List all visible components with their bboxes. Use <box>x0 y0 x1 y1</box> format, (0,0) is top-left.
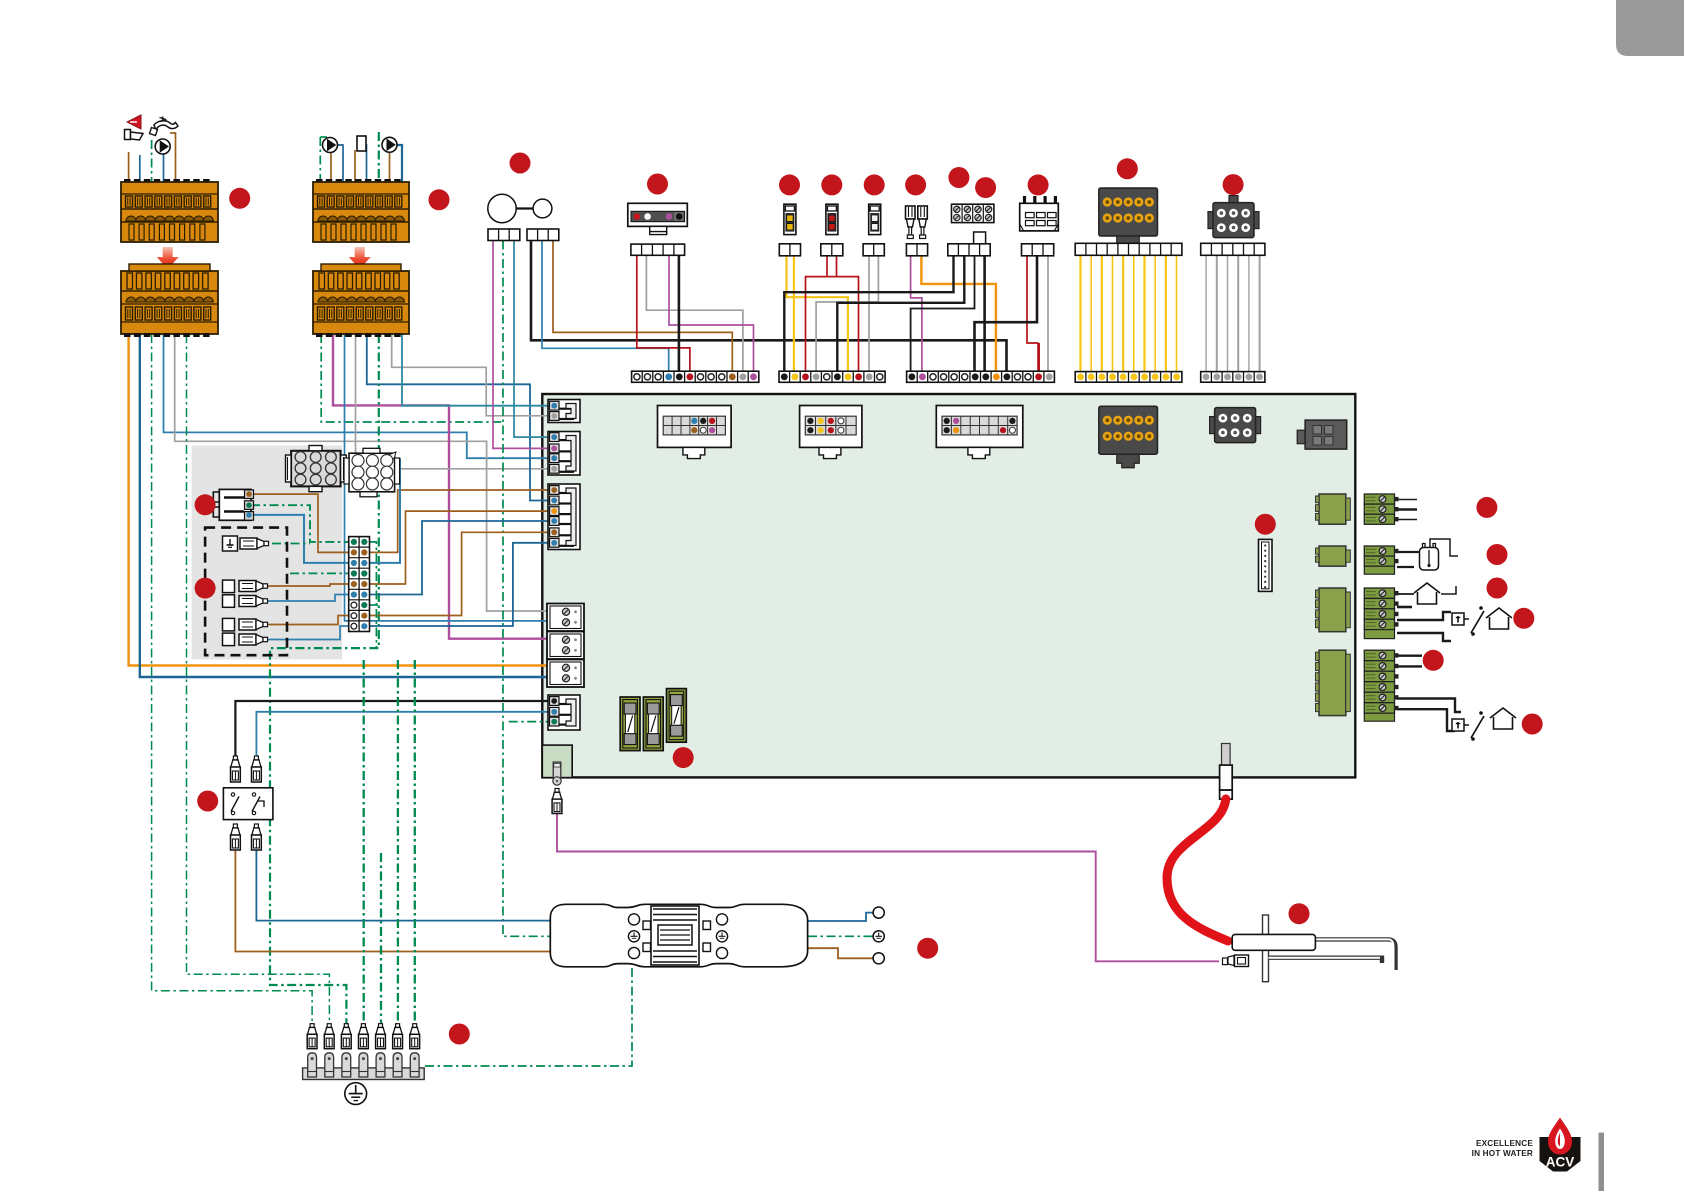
wire fuse3 gray b <box>816 256 878 372</box>
fuse holder F1 (yellow) <box>784 204 796 234</box>
9-pin connector CN9a <box>286 446 347 492</box>
ground rail <box>303 1024 425 1080</box>
wire G2 earth 2 <box>378 132 380 182</box>
wire P1 stub 3 <box>1397 519 1417 521</box>
wire yellow harness 5 <box>1122 255 1124 371</box>
wire P2 wire 2 <box>1397 566 1414 568</box>
wire house1 tail <box>1441 586 1456 594</box>
wire row1 earth stub <box>370 542 377 648</box>
wire yellow harness 3 <box>1101 255 1103 371</box>
wire row3 blue up <box>370 458 401 563</box>
wire fuse2 red bus <box>806 277 859 372</box>
wire black glasses bus <box>531 241 1007 372</box>
callout 13 <box>1223 174 1244 195</box>
wire P3 row3 switch <box>1397 612 1451 620</box>
wire display red <box>637 255 690 371</box>
wire row7 earth stub <box>370 604 379 606</box>
orange connector X1 upper <box>121 179 218 242</box>
relay module connector strip <box>1022 244 1054 256</box>
wire P1 stub 2 <box>1397 508 1417 511</box>
wire G1 blue pump <box>163 154 165 182</box>
DHW sensor icon <box>1420 544 1439 571</box>
wire relay black up <box>235 701 549 758</box>
panel inlet connector <box>213 489 253 520</box>
wire gray harness 6 <box>1259 255 1261 371</box>
screw module connector strip <box>948 244 990 256</box>
wire gray harness 5 <box>1248 255 1250 371</box>
wire relay blue up <box>256 712 549 758</box>
electrode sense terminal <box>1223 955 1249 967</box>
PCB main board <box>542 394 1355 777</box>
earth terminal icon <box>223 536 238 551</box>
warning red arrow icon <box>127 115 141 129</box>
fuse connector strip F2 <box>821 244 843 256</box>
wire plug orange <box>921 256 996 372</box>
callout 15 <box>195 578 216 599</box>
wire G2 earth to pump1 <box>319 137 321 182</box>
wire screws black 2 <box>837 256 964 372</box>
callout 9 <box>948 167 969 188</box>
wire P3 row2 stub <box>1397 606 1412 609</box>
wire yellow harness 4 <box>1112 255 1114 371</box>
terminal strip E <box>1201 372 1265 383</box>
wire relay brown down <box>235 849 552 952</box>
screw terminal module <box>952 204 994 222</box>
glasses connector strip right <box>527 229 559 241</box>
connector J10 external <box>1099 188 1158 250</box>
terminal strip B <box>779 371 885 382</box>
PCB green headers <box>1316 494 1351 716</box>
wire row4 earth stub <box>290 572 349 574</box>
callout 25 <box>449 1024 470 1045</box>
callout 24 <box>197 791 218 812</box>
PCB earth tab area <box>542 745 572 778</box>
wire teal glasses to conn B blue1 <box>514 241 549 438</box>
PCB vertical pin header <box>1259 539 1273 591</box>
sensor squares <box>223 580 235 593</box>
mains lead ends <box>873 907 884 964</box>
wire box brown spade1 <box>268 584 349 586</box>
wire box brown spade2 <box>268 616 349 625</box>
plug P2 (sensor) <box>1364 546 1398 566</box>
page tab top right <box>1616 0 1684 56</box>
wire row2 brown to conn C <box>370 490 550 552</box>
fuse holder F3 (spare) <box>869 204 881 234</box>
wire row5 brown to conn C <box>370 511 550 584</box>
wire earth gnd 4 <box>363 660 365 1024</box>
ignition coil tab <box>1220 744 1233 800</box>
wire G2 earth pump1 top <box>320 136 327 138</box>
wire row6 blue to conn C <box>370 521 550 595</box>
wire gray harness 2 <box>1216 255 1218 371</box>
callout 27 <box>1289 903 1310 924</box>
callout 16 <box>1255 514 1276 535</box>
relay K2 body <box>223 788 273 820</box>
wire display gray <box>646 255 743 371</box>
manual control icon <box>125 130 131 140</box>
wire yellow harness 9 <box>1165 255 1167 371</box>
wire connD earth stub <box>509 721 549 723</box>
wire relaymod red <box>1027 256 1039 343</box>
wire earth glasses to mains <box>503 241 552 937</box>
wire P2 wire 1 <box>1397 551 1420 553</box>
wire P4 row5 switch <box>1397 699 1461 713</box>
page bar bottom right <box>1599 1133 1605 1191</box>
wire fuse2 red tap a <box>826 256 828 277</box>
wire earth g2 b <box>270 334 379 1024</box>
wire G2 brown valve <box>354 150 356 182</box>
gray accessory panel <box>192 445 343 659</box>
wire earth g2 a <box>321 334 503 422</box>
svg-text:ACV: ACV <box>1546 1155 1575 1170</box>
PCB connector CN-B <box>548 432 580 476</box>
callout 1 <box>229 188 250 209</box>
wire earth long left 1 <box>152 334 313 1024</box>
wire fuse2 red tap b <box>836 256 838 277</box>
electrode rod lower <box>1269 958 1383 963</box>
callout 21 <box>1513 608 1534 629</box>
glasses connector strip left <box>488 229 520 241</box>
wire box earth spade <box>272 543 310 545</box>
red arrow 1 <box>157 247 179 269</box>
PCB footprint FP1 <box>658 406 732 459</box>
pump P2 icon <box>323 138 338 153</box>
fuse connector strip F3 <box>863 244 884 256</box>
sensor dashed box <box>205 528 287 656</box>
wire magenta glasses to conn B <box>493 241 549 449</box>
ignition caps icon B <box>918 206 928 239</box>
ACV logo shield <box>1540 1137 1581 1172</box>
PCB fuse FU3 <box>667 689 687 743</box>
pump P1 icon <box>155 139 170 154</box>
wire gray to conn A gray <box>392 334 549 416</box>
callout 7 <box>864 174 885 195</box>
sensor spade 1 <box>239 581 256 592</box>
sensor spade 2 <box>239 596 256 607</box>
plug P1 (0-10V) <box>1364 494 1398 524</box>
wire mains right earth <box>808 935 873 937</box>
wire relaymod black <box>975 256 1038 372</box>
PCB footprint FP3 <box>936 406 1023 459</box>
valve icon <box>357 136 366 151</box>
wire mains right brown <box>808 948 873 958</box>
wire display black <box>678 255 681 371</box>
screw module raised cell <box>974 232 986 244</box>
wire blue glasses to strip A <box>542 241 669 372</box>
callout 4 <box>647 174 668 195</box>
ignition caps icon A <box>906 206 916 239</box>
plug P4 (room stat) <box>1364 650 1398 713</box>
wire yellow harness 10 <box>1176 255 1178 371</box>
connector J6 external <box>1208 196 1259 238</box>
relay K2 top spade 1 <box>231 756 241 782</box>
wire mains blue to screw block <box>140 334 549 677</box>
wire row9 blue to conn C <box>370 543 550 626</box>
wire relayconn earth <box>251 505 349 542</box>
J6 connector strip <box>1201 243 1265 255</box>
wire fuse1 yellow b <box>793 256 795 372</box>
PCB connector CN-D <box>548 695 580 730</box>
PCB earth faston <box>553 762 561 785</box>
callout 8 <box>905 174 926 195</box>
wire relayconn brown <box>251 494 349 552</box>
PCB connector CN-A <box>548 400 580 423</box>
wire G2 blue pump1 <box>337 145 343 182</box>
J10 connector strip <box>1075 243 1182 255</box>
wire P4 row6 switch <box>1397 709 1455 731</box>
callout 10 <box>975 177 996 198</box>
thermostat switch 1 <box>1452 613 1464 625</box>
earth spade in box <box>240 538 257 549</box>
electrode mounting plate <box>1263 915 1269 982</box>
wire P1 stub 1 <box>1397 499 1417 501</box>
electrode rod upper <box>1315 939 1395 970</box>
faucet DHW icon <box>154 121 178 130</box>
PCB fuse FU2 <box>643 697 663 751</box>
wire G2 blue valve <box>361 145 367 182</box>
wire plug magenta <box>911 256 922 372</box>
wire screws black 3 <box>911 256 975 372</box>
callout 22 <box>1423 650 1444 671</box>
terminal strip C <box>907 371 1055 382</box>
wire yellow harness 1 <box>1079 255 1081 371</box>
wire relaymod red thick <box>1037 343 1040 372</box>
fuse holder F2 (red) <box>826 204 838 234</box>
PCB connector J10 board <box>1099 406 1158 468</box>
callout 17 <box>673 747 694 768</box>
wire teal to conn A blue <box>402 334 549 406</box>
mains connector body <box>550 904 807 967</box>
wire yellow harness 8 <box>1154 255 1156 371</box>
wire fuse1 yellow a <box>787 256 848 372</box>
PCB connector J6 board <box>1210 408 1261 443</box>
wire yellow harness 7 <box>1143 255 1145 371</box>
wire relayconn blue <box>251 515 349 563</box>
9-pin connector CN9b <box>344 448 400 497</box>
ignition cable <box>1167 799 1228 941</box>
relay module K1 <box>1020 196 1059 231</box>
outdoor house icon <box>1414 583 1440 593</box>
terminal strip A <box>632 371 759 382</box>
wire blue to screw blue <box>345 334 550 621</box>
wire earth long left 2 <box>187 334 330 1024</box>
wire fuse3 gray a <box>868 256 870 372</box>
2-column terminal strip <box>349 537 370 632</box>
electrode rod upper fill <box>1315 939 1393 970</box>
display connector strip <box>631 244 685 255</box>
orange connector X1 lower <box>121 264 218 337</box>
sensor spade 3 <box>239 619 256 630</box>
callout 19 <box>1487 544 1508 565</box>
pump P3 icon <box>382 137 397 152</box>
wire P3 row1 to house <box>1397 593 1414 595</box>
wire brown glasses to strip A <box>553 241 732 372</box>
callout 2 <box>429 189 450 210</box>
red arrow 2 <box>349 247 371 269</box>
callout 14 <box>195 494 216 515</box>
ACV logo flame <box>1548 1118 1572 1155</box>
wire G2 brown pump2 <box>389 152 391 182</box>
wire screws black 1 <box>784 256 953 372</box>
wire G1 brown pump right <box>170 133 176 182</box>
wire G1 brown to tool icon <box>128 152 130 182</box>
mains connector internals <box>628 906 727 965</box>
ground symbol <box>345 1083 367 1105</box>
relay K2 top spade 2 <box>252 756 262 782</box>
wire sensor tail <box>1430 539 1458 556</box>
wire P4 row1 <box>1397 655 1422 657</box>
wire mains right blue <box>808 913 873 921</box>
wire display magenta <box>669 255 754 371</box>
relay K2 bottom spade 1 <box>231 824 241 850</box>
fuse connector strip F1 <box>779 244 800 256</box>
wire mains orange to screw block <box>129 334 549 666</box>
thermostat switch 2 <box>1452 719 1464 731</box>
wire gray harness 3 <box>1227 255 1229 371</box>
callout 26 <box>917 938 938 959</box>
callout 18 <box>1476 497 1497 518</box>
wire gray to conn B gray <box>356 334 550 469</box>
callout 11 <box>1028 174 1049 195</box>
wire ignition sense magenta <box>557 814 1219 962</box>
PCB screw terminal block <box>547 604 584 688</box>
wire blue to conn C blue1 <box>367 334 549 501</box>
wire box blue spade1 <box>268 595 349 602</box>
display module <box>628 203 688 234</box>
PCB connector CN-C <box>548 484 580 550</box>
earth spade lug <box>552 789 562 814</box>
callout 5 <box>779 174 800 195</box>
wire gray harness 1 <box>1205 255 1207 371</box>
caps connector strip <box>906 244 927 256</box>
sensor spade 4 <box>239 634 256 645</box>
wire earth gnd 6 <box>397 660 399 1024</box>
PCB connector J4 board <box>1297 420 1347 449</box>
wire gray to screw gray <box>175 334 549 611</box>
plug P3 (outdoor) <box>1364 588 1398 630</box>
house icon 2 <box>1486 608 1512 618</box>
wire gray harness 4 <box>1237 255 1239 371</box>
relay K2 bottom spade 2 <box>252 824 262 850</box>
display window icon <box>488 194 516 222</box>
wire relaymod gray <box>1047 256 1049 372</box>
callout 20 <box>1487 578 1508 599</box>
electrode rod lower fill <box>1269 957 1381 959</box>
callout 6 <box>821 174 842 195</box>
wire earth gnd 5 <box>380 853 382 1024</box>
orange connector X2 lower <box>313 264 409 337</box>
wire P3 row4 switch <box>1397 633 1451 641</box>
wire row8 brown to conn C <box>370 532 550 615</box>
terminal strip D <box>1075 372 1182 383</box>
wire yellow harness 2 <box>1090 255 1092 371</box>
wire box blue spade2 <box>268 626 349 640</box>
house icon 3 <box>1490 708 1516 718</box>
wire G1 earth to pump <box>151 140 153 182</box>
svg-text:IN HOT WATER: IN HOT WATER <box>1472 1149 1533 1158</box>
orange connector X2 upper <box>313 179 409 242</box>
wire earth gnd 7 <box>414 660 416 1024</box>
callout 3 <box>510 153 531 174</box>
wire G2 blue pump2 <box>396 145 402 182</box>
wire relay blue down <box>256 849 552 921</box>
wire G2 brown pump1 <box>330 152 332 182</box>
wire G1 blue <box>139 155 141 182</box>
wire earth gnd bar link <box>425 968 632 1066</box>
electrode body <box>1232 934 1315 950</box>
wire yellow harness 6 <box>1133 255 1135 371</box>
callout 12 <box>1117 158 1138 179</box>
wire P4 row2 <box>1397 665 1422 667</box>
wire screws black 4 <box>983 243 986 372</box>
callout 23 <box>1522 714 1543 735</box>
PCB fuse FU1 <box>620 697 640 751</box>
wire magenta to screw block <box>333 334 549 639</box>
PCB footprint FP2 <box>800 406 862 459</box>
svg-text:EXCELLENCE: EXCELLENCE <box>1476 1139 1533 1148</box>
wire blue to conn B2 <box>164 334 550 458</box>
